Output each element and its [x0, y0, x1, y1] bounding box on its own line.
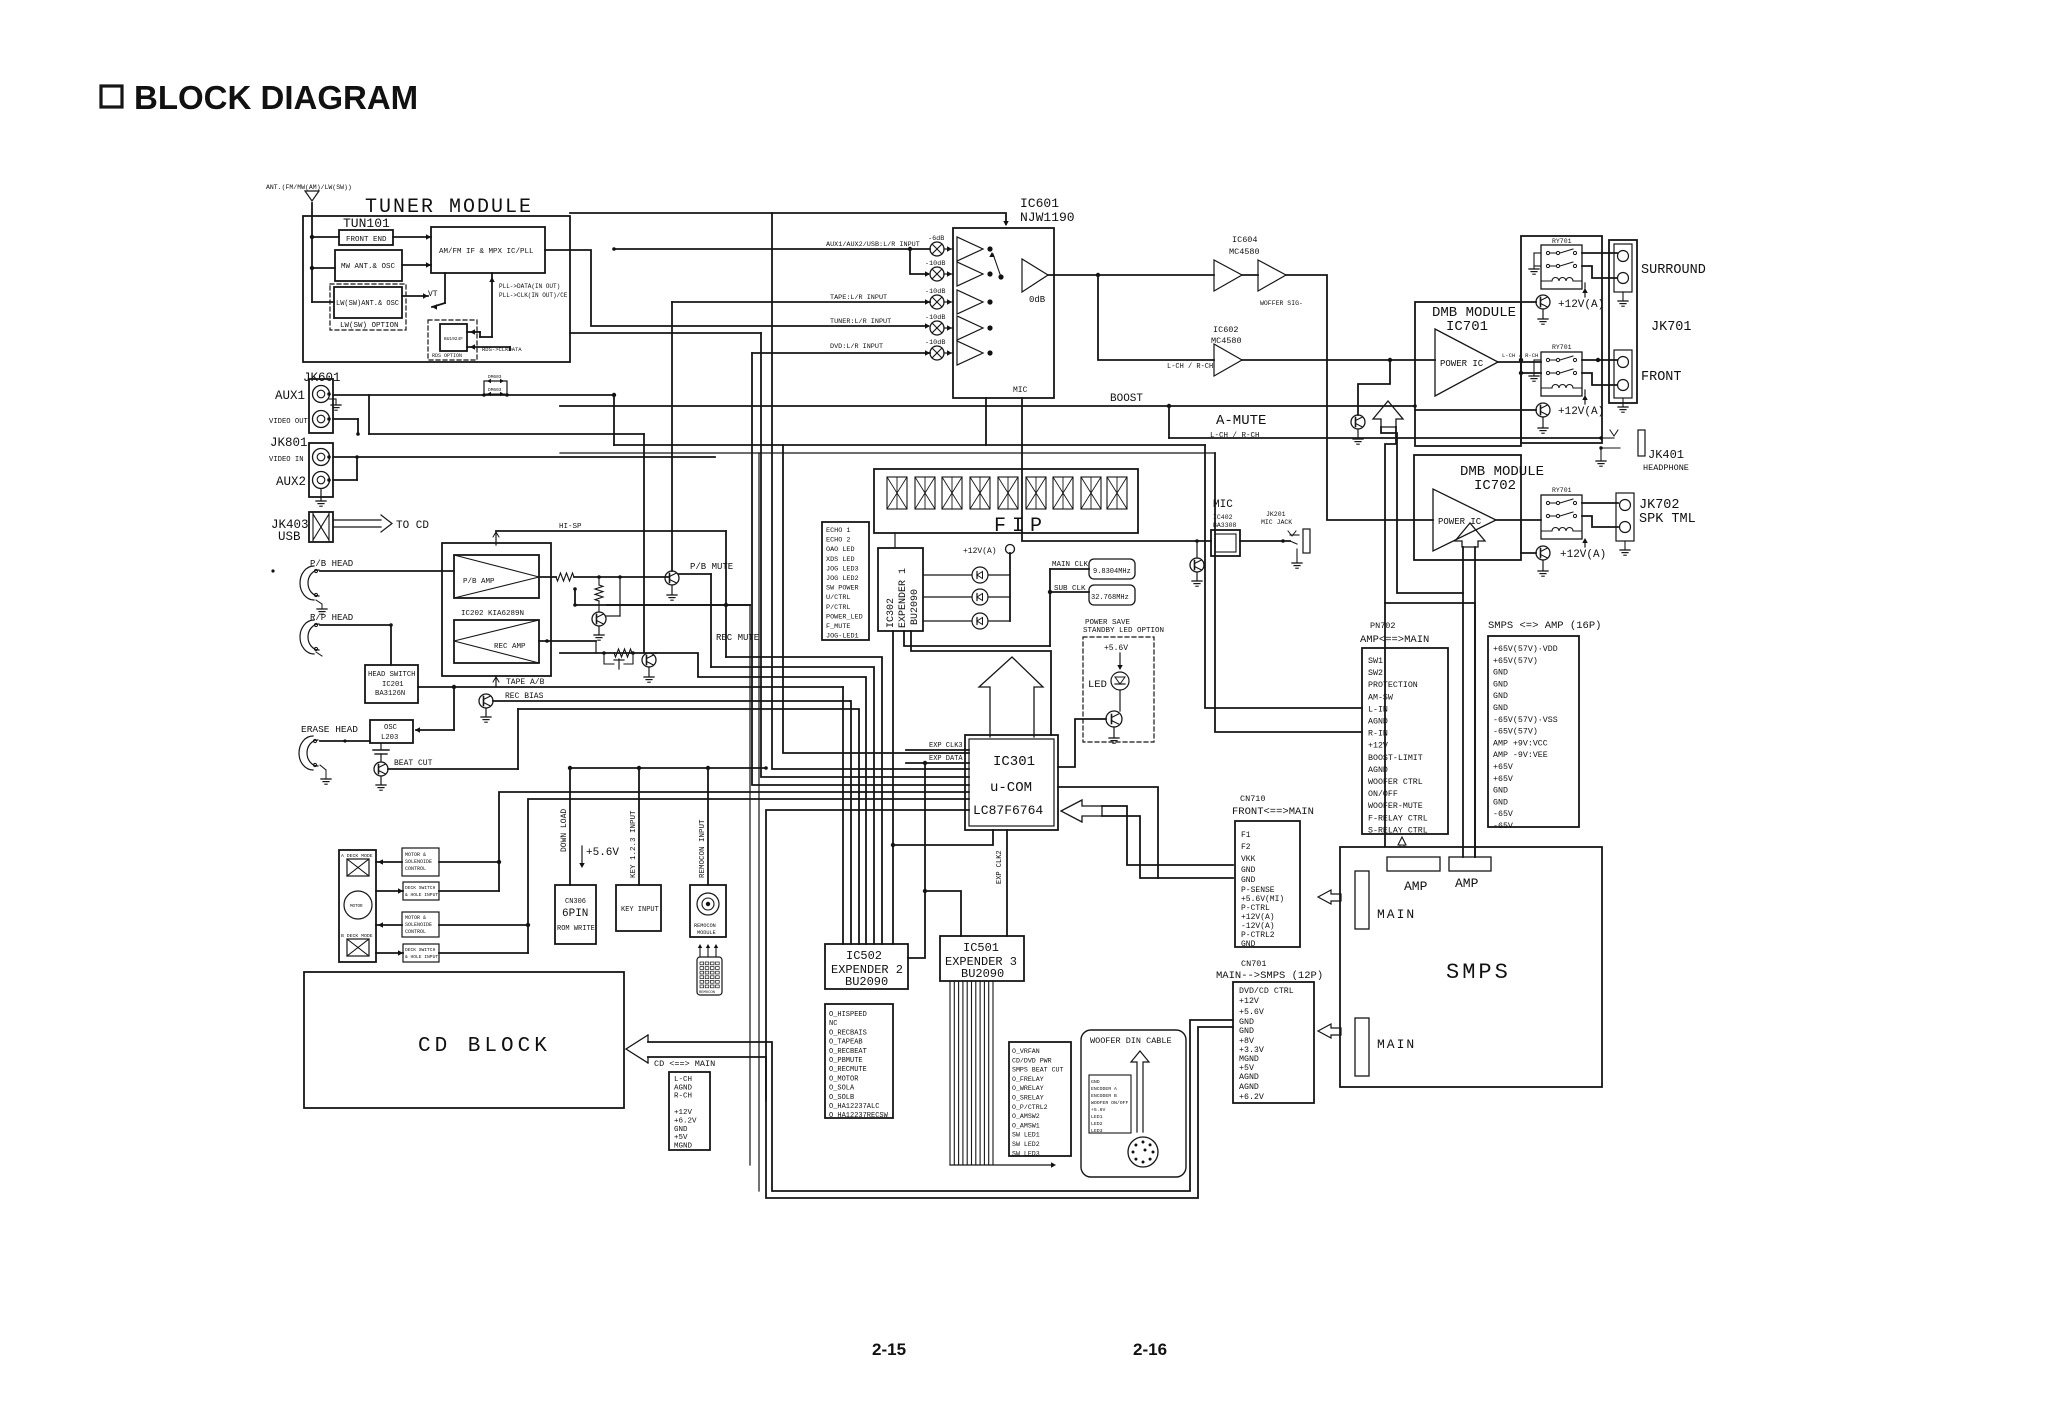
- HI-SP arrow into tape box: [495, 531, 497, 545]
- svg-text:AGND: AGND: [1368, 766, 1388, 775]
- svg-text:LW(SW)ANT.& OSC: LW(SW)ANT.& OSC: [336, 300, 399, 308]
- svg-text:AMP: AMP: [1404, 879, 1428, 894]
- IC501 bottom wire 8: [979, 981, 981, 1165]
- IC501 bottom wire 4: [962, 981, 964, 1165]
- wire +5.6v arrow: [1119, 653, 1121, 668]
- svg-text:O_RECBAIS: O_RECBAIS: [829, 1029, 867, 1037]
- svg-text:EXP DATA: EXP DATA: [929, 755, 963, 763]
- DM603 bridge: [484, 381, 507, 395]
- AUX2 jack: [313, 472, 330, 489]
- wire msol1 to deck: [376, 861, 402, 863]
- FIP arrow from IC301: [979, 657, 1043, 737]
- svg-text:SOLENOIDE: SOLENOIDE: [405, 922, 432, 928]
- svg-text:O_HA12237RECSW: O_HA12237RECSW: [829, 1112, 889, 1120]
- svg-text:REC BIAS: REC BIAS: [505, 692, 544, 701]
- svg-text:PLL->DATA(IN OUT): PLL->DATA(IN OUT): [499, 283, 560, 290]
- svg-text:& HOLE INPUT: & HOLE INPUT: [405, 892, 438, 898]
- DM603 arrow bottom: [486, 393, 505, 395]
- transistor rec mute: [642, 653, 656, 667]
- svg-text:O_P/CTRL2: O_P/CTRL2: [1012, 1104, 1048, 1111]
- svg-text:IC301: IC301: [993, 754, 1035, 770]
- wire cascade tape a/b to IC502: [842, 687, 844, 944]
- svg-text:GND: GND: [1239, 1027, 1254, 1036]
- svg-text:SW LED1: SW LED1: [1012, 1132, 1040, 1139]
- IC601 input amp 4: [957, 316, 983, 340]
- wire transistor1: [1521, 301, 1536, 303]
- standby ground: [1113, 727, 1115, 737]
- svg-text:+65V(57V): +65V(57V): [1493, 656, 1538, 666]
- svg-text:O_SOLB: O_SOLB: [829, 1094, 854, 1102]
- pn702 up arrow: [1398, 837, 1406, 845]
- antenna symbol: [305, 191, 319, 201]
- wire antenna to LW osc: [312, 301, 334, 303]
- capacitor below OSC: [373, 749, 389, 751]
- BU1924F box: [440, 324, 467, 351]
- svg-text:+12V(A): +12V(A): [1558, 406, 1604, 418]
- motor solenoide box 1: [402, 848, 439, 876]
- wire deck bus to IC301: [766, 810, 969, 1100]
- +12V terminal: [1006, 545, 1015, 554]
- wire tape input: [672, 301, 930, 303]
- wire key input: [638, 768, 640, 885]
- svg-text:+5.6V: +5.6V: [1239, 1008, 1264, 1017]
- svg-text:BLOCK DIAGRAM: BLOCK DIAGRAM: [134, 79, 418, 116]
- wire mute bus down long: [749, 605, 751, 1165]
- svg-text:LC87F6764: LC87F6764: [973, 803, 1043, 818]
- svg-text:TAPE:L/R INPUT: TAPE:L/R INPUT: [830, 294, 887, 302]
- svg-text:CONTROL: CONTROL: [405, 866, 426, 872]
- svg-text:L-CH: L-CH: [674, 1076, 692, 1084]
- svg-text:O_SRELAY: O_SRELAY: [1012, 1095, 1044, 1102]
- +12V arrow 3: [1584, 540, 1586, 547]
- svg-text:IC702: IC702: [1474, 478, 1516, 494]
- svg-text:KEY 1.2.3 INPUT: KEY 1.2.3 INPUT: [630, 810, 638, 878]
- svg-text:F_MUTE: F_MUTE: [826, 623, 850, 631]
- svg-text:POWER IC: POWER IC: [1440, 359, 1484, 369]
- mixer aux2: [930, 267, 944, 281]
- svg-text:MAIN: MAIN: [1377, 907, 1416, 922]
- svg-text:JK801: JK801: [270, 436, 308, 450]
- wire main clk: [1050, 568, 1089, 570]
- svg-text:9.8304MHz: 9.8304MHz: [1093, 568, 1131, 576]
- svg-text:IC402: IC402: [1213, 514, 1233, 521]
- IC501 bottom wire 7: [975, 981, 977, 1165]
- wire relay3 to jack: [1582, 502, 1618, 504]
- transistor rec bias: [479, 694, 493, 708]
- motor solenoide box 2: [402, 912, 439, 937]
- FIP digit 4: [970, 477, 990, 509]
- main clk box: [1089, 559, 1135, 579]
- wire IC601 bottom left: [985, 398, 987, 445]
- remote arrows: [699, 946, 701, 957]
- svg-text:RDS OPTION: RDS OPTION: [432, 353, 462, 359]
- svg-text:IC601: IC601: [1020, 196, 1059, 211]
- AUX1 jack: [313, 386, 330, 403]
- front jack box: [1614, 350, 1632, 398]
- svg-text:O_RECBEAT: O_RECBEAT: [829, 1048, 867, 1056]
- svg-text:EXP CLK2: EXP CLK2: [996, 850, 1004, 884]
- front jack ground: [1622, 398, 1624, 406]
- IC501 bottom wire 11: [992, 981, 994, 1165]
- svg-text:BU1924F: BU1924F: [444, 336, 463, 342]
- +5.6v arrow b: [581, 846, 583, 866]
- svg-text:-65V: -65V: [1493, 822, 1513, 831]
- svg-text:U/CTRL: U/CTRL: [826, 594, 850, 602]
- IC501 bottom wire 5: [966, 981, 968, 1165]
- wire front end to AM/FM: [393, 236, 431, 238]
- wire cd main band A: [648, 1020, 1233, 1191]
- LED symbol: [1111, 672, 1129, 690]
- svg-text:+65V(57V)·VDD: +65V(57V)·VDD: [1493, 644, 1558, 654]
- svg-text:+12V: +12V: [1239, 997, 1259, 1006]
- CN710 connection arrow: [1061, 800, 1102, 822]
- svg-text:GND: GND: [1091, 1079, 1100, 1085]
- wire IC302 clock feed: [904, 631, 1050, 646]
- svg-text:2-16: 2-16: [1133, 1340, 1167, 1359]
- svg-text:O_HISPEED: O_HISPEED: [829, 1011, 867, 1019]
- svg-text:SW1: SW1: [1368, 657, 1383, 666]
- svg-text:MIC: MIC: [1013, 386, 1028, 395]
- remote control unit: [697, 957, 722, 995]
- svg-text:FRONT<==>MAIN: FRONT<==>MAIN: [1232, 806, 1314, 818]
- svg-text:LED1: LED1: [1091, 1114, 1103, 1120]
- wire dvd vertical to IC301: [752, 353, 969, 785]
- svg-text:S-RELAY CTRL: S-RELAY CTRL: [1368, 826, 1428, 835]
- svg-text:HEADPHONE: HEADPHONE: [1643, 463, 1689, 473]
- wire IC301 right pin: [1058, 787, 1158, 878]
- O_VRFAN list box: [1009, 1042, 1071, 1156]
- svg-text:JK401: JK401: [1648, 448, 1684, 462]
- svg-text:REMOCON INPUT: REMOCON INPUT: [699, 819, 707, 878]
- svg-text:P/B AMP: P/B AMP: [463, 578, 495, 586]
- svg-text:BOOST-LIMIT: BOOST-LIMIT: [1368, 754, 1423, 763]
- svg-text:ENCODER A: ENCODER A: [1091, 1086, 1117, 1092]
- svg-text:FIP: FIP: [994, 515, 1048, 538]
- wire video bus: [369, 433, 644, 435]
- IC601 0dB amp: [1022, 259, 1048, 292]
- svg-text:LED3: LED3: [1091, 1128, 1103, 1134]
- svg-text:GND: GND: [1493, 704, 1508, 713]
- svg-text:+6.2V: +6.2V: [674, 1118, 697, 1126]
- svg-text:VIDEO IN: VIDEO IN: [269, 456, 304, 464]
- surround jack box: [1614, 244, 1632, 292]
- wire IC601 bottom 2: [560, 452, 1215, 454]
- wire tuner to IC601 top: [570, 213, 1006, 224]
- wire transistor2 line: [1415, 409, 1536, 411]
- transistor P/B mute: [665, 571, 679, 585]
- svg-text:EXPENDER 1: EXPENDER 1: [898, 568, 909, 628]
- svg-text:TUN101: TUN101: [343, 216, 390, 231]
- wire transistor3 line: [1521, 552, 1536, 554]
- svg-text:0dB: 0dB: [1029, 295, 1046, 305]
- wire relay2 to jack: [1582, 359, 1617, 361]
- wire pll vertical to IC301: [761, 333, 969, 777]
- svg-text:LW(SW) OPTION: LW(SW) OPTION: [340, 322, 399, 330]
- wire arrow shaft B: [1385, 427, 1396, 846]
- wire cn710 tail b: [1102, 816, 1233, 878]
- mixer dvd: [930, 346, 944, 360]
- svg-text:P-CTRL: P-CTRL: [1241, 904, 1270, 913]
- wire aux bus down long: [758, 453, 760, 1191]
- rec bias ground: [485, 708, 487, 716]
- RDS option dashed box: [428, 320, 477, 360]
- svg-text:USB: USB: [278, 530, 301, 544]
- headphone jack symbol: [1638, 430, 1645, 456]
- svg-text:P/CTRL: P/CTRL: [826, 604, 850, 612]
- svg-text:SMPS: SMPS: [1446, 960, 1511, 985]
- JK702 jack box: [1616, 493, 1634, 541]
- JK403 USB box: [309, 512, 333, 542]
- wire VT: [444, 273, 446, 303]
- wire led to transistor: [1119, 690, 1121, 711]
- DIN connector: [1128, 1137, 1158, 1167]
- Q201 ground: [598, 626, 600, 634]
- wire down load: [569, 768, 571, 885]
- svg-text:A-MUTE: A-MUTE: [1216, 413, 1266, 429]
- svg-text:AGND: AGND: [1239, 1083, 1259, 1092]
- svg-text:NJW1190: NJW1190: [1020, 210, 1075, 225]
- wire RDS clkdata 2: [467, 346, 510, 348]
- wire exp data down: [908, 763, 925, 958]
- JK701 outer box: [1609, 240, 1637, 403]
- wire IC702 shaft right: [1474, 547, 1476, 857]
- svg-text:MOTOR &: MOTOR &: [405, 915, 426, 921]
- wire relay1 row2 to jack: [1582, 266, 1617, 278]
- svg-text:PN702: PN702: [1370, 621, 1396, 631]
- FIP digit 8: [1081, 477, 1101, 509]
- wire video in: [333, 456, 715, 458]
- power save dashed box: [1083, 637, 1154, 742]
- CD-MAIN arrow head: [626, 1035, 648, 1063]
- svg-text:ECHO 2: ECHO 2: [826, 537, 850, 545]
- svg-text:DVD:L/R INPUT: DVD:L/R INPUT: [830, 343, 883, 351]
- wire IC601 mic pin: [1022, 398, 1211, 541]
- transistor relay2: [1536, 403, 1550, 417]
- wire IC602 out: [1242, 359, 1435, 361]
- IC501 bottom wire 2: [953, 981, 955, 1165]
- front end box: [339, 230, 393, 245]
- svg-text:RY701: RY701: [1552, 487, 1572, 494]
- IC502 box: [825, 944, 908, 989]
- svg-text:O_HA12237ALC: O_HA12237ALC: [829, 1103, 879, 1111]
- svg-text:MODULE: MODULE: [697, 930, 716, 936]
- wire IC302 to IC301 top: [911, 631, 1051, 735]
- svg-text:CN701: CN701: [1241, 959, 1267, 969]
- svg-text:BU2090: BU2090: [845, 975, 888, 989]
- wire mic to jack: [1240, 540, 1290, 542]
- svg-text:+5.6V: +5.6V: [1091, 1107, 1106, 1113]
- wire dsw1 right: [439, 890, 499, 892]
- svg-text:-12V(A): -12V(A): [1241, 922, 1275, 931]
- wire cascade hi-sp to IC502: [726, 657, 882, 944]
- FIP digit 6: [1026, 477, 1046, 509]
- svg-text:IC201: IC201: [382, 681, 404, 689]
- CN306 box: [555, 885, 596, 944]
- MIC amp box: [1211, 530, 1240, 556]
- wire power702 out: [1496, 519, 1541, 521]
- wire head switch to osc: [418, 686, 454, 688]
- svg-text:WOOFER ON/OFF: WOOFER ON/OFF: [1091, 1100, 1129, 1106]
- svg-text:TUNER:L/R INPUT: TUNER:L/R INPUT: [830, 318, 891, 326]
- LW(SW) option dashed box: [330, 284, 406, 330]
- wire aux branch: [910, 249, 928, 274]
- svg-text:POWER SAVE: POWER SAVE: [1085, 619, 1131, 627]
- wire HI-SP: [496, 530, 726, 532]
- svg-text:GND: GND: [674, 1126, 688, 1134]
- wire cascade pb mute to IC502: [711, 667, 874, 944]
- svg-text:F2: F2: [1241, 843, 1251, 852]
- IC501 bottom wire 6: [971, 981, 973, 1165]
- svg-text:WOOFER-MUTE: WOOFER-MUTE: [1368, 802, 1423, 811]
- wire cn710 tail a: [1102, 806, 1233, 865]
- svg-text:SURROUND: SURROUND: [1641, 263, 1706, 278]
- wire rp head to headswitch: [320, 624, 391, 626]
- IC604 amp 1: [1214, 260, 1242, 291]
- svg-text:ERASE HEAD: ERASE HEAD: [301, 724, 358, 735]
- transistor beat cut: [374, 762, 388, 776]
- MAIN connector 2: [1355, 1018, 1369, 1076]
- erase head ground: [320, 765, 326, 770]
- tuner module box TUN101: [303, 216, 570, 362]
- mixer aux: [930, 242, 944, 256]
- transistor relay3: [1536, 546, 1550, 560]
- svg-text:+8V: +8V: [1239, 1037, 1254, 1046]
- svg-text:SW POWER: SW POWER: [826, 585, 859, 593]
- svg-text:JOG-LED1: JOG-LED1: [826, 633, 859, 641]
- svg-text:AMP<==>MAIN: AMP<==>MAIN: [1360, 634, 1429, 646]
- LED indicator 1: [923, 574, 972, 576]
- wire FIP to IC302: [894, 533, 896, 548]
- svg-text:IC202 KIA6289N: IC202 KIA6289N: [461, 610, 524, 618]
- svg-text:MIC: MIC: [1213, 499, 1233, 511]
- svg-text:CD BLOCK: CD BLOCK: [418, 1035, 551, 1058]
- svg-text:+5.6V: +5.6V: [1104, 644, 1128, 653]
- svg-text:AGND: AGND: [674, 1084, 693, 1092]
- IC501 bottom wire 1: [949, 981, 951, 1165]
- svg-text:BOOST: BOOST: [1110, 393, 1143, 405]
- svg-text:PROTECTION: PROTECTION: [1368, 681, 1418, 690]
- wire PLL data: [491, 273, 493, 337]
- svg-text:O_AMSW1: O_AMSW1: [1012, 1122, 1040, 1129]
- svg-text:+12V(A): +12V(A): [1560, 549, 1606, 561]
- svg-text:AUX1/AUX2/USB:L/R INPUT: AUX1/AUX2/USB:L/R INPUT: [826, 241, 920, 249]
- FIP digit 5: [998, 477, 1018, 509]
- wire exp clk3: [906, 749, 969, 751]
- FIP digit 3: [942, 477, 962, 509]
- svg-text:GND: GND: [1239, 1018, 1254, 1027]
- svg-text:GND: GND: [1493, 669, 1508, 678]
- wire msol2 right: [439, 924, 528, 926]
- pb head ground: [316, 600, 322, 604]
- IC702 up arrow: [1455, 523, 1485, 547]
- wire exp clk2: [1006, 830, 1008, 936]
- svg-text:O_VRFAN: O_VRFAN: [1012, 1048, 1040, 1055]
- svg-text:+6.2V: +6.2V: [1239, 1093, 1264, 1102]
- headphone ground: [1600, 448, 1602, 460]
- CN710 box: [1235, 821, 1300, 947]
- transistor Q201: [592, 612, 606, 626]
- A deck X box: [347, 859, 369, 876]
- MOTOR circle: [344, 891, 372, 919]
- DMB module IC702 box: [1414, 455, 1521, 560]
- REMOCON MODULE box: [690, 885, 726, 937]
- wire LW to mixer: [402, 295, 428, 297]
- wire Q201 out: [606, 615, 620, 617]
- svg-text:MGND: MGND: [674, 1142, 693, 1150]
- TO CD arrow: [333, 519, 381, 521]
- IC501 bottom wire 3: [958, 981, 960, 1165]
- AMP connector 1: [1387, 857, 1440, 871]
- VIDEO IN jack: [313, 449, 330, 466]
- svg-text:O_TAPEAB: O_TAPEAB: [829, 1039, 863, 1047]
- P/B AMP symbol: [454, 555, 539, 598]
- svg-text:IC302: IC302: [886, 598, 897, 628]
- HEAD SWITCH box: [365, 665, 418, 703]
- svg-text:RDS->CLKDATA: RDS->CLKDATA: [482, 346, 522, 353]
- svg-text:BA3308: BA3308: [1213, 522, 1237, 529]
- FIP digit 2: [915, 477, 935, 509]
- svg-text:CONTROL: CONTROL: [405, 929, 426, 935]
- svg-text:VIDEO OUT: VIDEO OUT: [269, 418, 309, 426]
- echo list box: [822, 522, 869, 640]
- svg-text:IC701: IC701: [1446, 319, 1488, 335]
- svg-text:MOTOR &: MOTOR &: [405, 852, 426, 858]
- wire rec mute path: [595, 641, 597, 653]
- +12V arrow 2: [1584, 397, 1586, 404]
- svg-text:NC: NC: [829, 1020, 837, 1028]
- svg-text:BEAT CUT: BEAT CUT: [394, 759, 433, 768]
- svg-text:WOFFER SIG-: WOFFER SIG-: [1260, 300, 1303, 307]
- svg-text:MGND: MGND: [1239, 1055, 1259, 1064]
- wire mic transistor: [1196, 541, 1198, 558]
- svg-text:O_WRELAY: O_WRELAY: [1012, 1085, 1044, 1092]
- svg-text:+12V(A): +12V(A): [963, 547, 997, 556]
- wire tuner pll bus: [570, 332, 761, 334]
- SMPS left arrow 1: [1318, 890, 1341, 904]
- JK702 jack ground: [1624, 541, 1626, 549]
- wire osc to cap: [380, 743, 382, 749]
- surround jack ground: [1622, 292, 1624, 300]
- svg-text:HI-SP: HI-SP: [559, 523, 582, 531]
- AM/FM IF & MPX IC/PLL box: [431, 227, 545, 273]
- svg-text:IC604: IC604: [1232, 235, 1258, 245]
- IC301 outer box: [965, 735, 1058, 830]
- svg-text:EXP CLK3: EXP CLK3: [929, 742, 963, 750]
- IC501 bottom wire 9: [983, 981, 985, 1165]
- svg-text:MC4580: MC4580: [1229, 247, 1260, 257]
- wire antenna to MW osc: [312, 267, 335, 269]
- IC302 box: [878, 548, 923, 631]
- wire cascade rec bias to IC502: [850, 701, 851, 944]
- deck switch box 2: [403, 944, 439, 962]
- KEY INPUT box: [616, 885, 661, 931]
- svg-text:IC501: IC501: [963, 941, 999, 955]
- svg-text:ECHO 1: ECHO 1: [826, 527, 850, 535]
- svg-text:AUX1: AUX1: [275, 389, 305, 403]
- svg-text:LED2: LED2: [1091, 1121, 1103, 1127]
- relay2 left stubs: [1534, 359, 1541, 361]
- IC604 amp 2: [1258, 260, 1286, 291]
- wire dvd input: [752, 352, 930, 354]
- svg-text:P/B HEAD: P/B HEAD: [310, 559, 353, 569]
- svg-text:F-RELAY CTRL: F-RELAY CTRL: [1368, 814, 1428, 823]
- svg-text:MOTOR: MOTOR: [350, 905, 363, 909]
- wire relay front row2: [1521, 362, 1541, 373]
- wire to headphone: [1169, 437, 1601, 439]
- wire jk bus vertical to IC301: [783, 445, 969, 753]
- IC301 inner box: [969, 739, 1054, 826]
- IC601 input amp 2: [957, 262, 983, 286]
